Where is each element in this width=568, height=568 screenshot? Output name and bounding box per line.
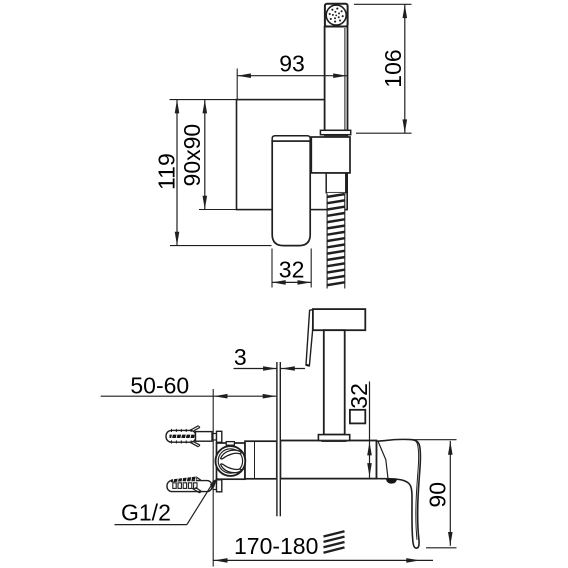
sprayer nozzle xyxy=(306,310,313,366)
dimension 32 extension lines xyxy=(271,249,273,288)
mounting screw head top xyxy=(213,434,217,441)
mixer body tube right xyxy=(280,441,376,479)
dimension 90x90 xyxy=(204,100,206,210)
svg-text:G1/2: G1/2 xyxy=(121,500,171,526)
svg-text:90: 90 xyxy=(425,482,451,508)
svg-text:93: 93 xyxy=(279,51,305,77)
svg-text:32: 32 xyxy=(279,257,305,283)
cartridge cap circle xyxy=(226,442,234,446)
holder flange ring xyxy=(320,130,350,134)
wall anchor bottom (dowel+screw) xyxy=(167,481,212,492)
dimension 93 extension line xyxy=(236,69,238,100)
hand shower handle shaft xyxy=(325,27,348,131)
mounting screw head bottom xyxy=(213,482,217,490)
dimension 90 extension lines xyxy=(411,439,457,441)
wall reference line xyxy=(212,389,214,567)
svg-text:106: 106 xyxy=(380,49,406,87)
hand shower head xyxy=(325,4,348,27)
wall plate side view (3mm) xyxy=(276,362,281,516)
hose connector nut xyxy=(326,173,346,193)
dimension 90 xyxy=(449,441,451,546)
svg-text:50-60: 50-60 xyxy=(130,373,189,399)
svg-text:170-180: 170-180 xyxy=(234,533,318,559)
mixer body housing xyxy=(217,443,246,479)
dimension 119 xyxy=(176,100,178,246)
mixer lever handle (front view) xyxy=(272,141,310,246)
dimension 32 (top) xyxy=(272,281,311,283)
shower hose (coil) xyxy=(327,193,345,290)
dimension 119 extension lines xyxy=(170,99,237,101)
mixer body tube left xyxy=(245,441,277,479)
dimension 90x90 extension line xyxy=(199,209,236,211)
sprayer shaft flange xyxy=(318,435,349,441)
svg-text:32: 32 xyxy=(346,383,372,409)
dimension 106 xyxy=(404,4,406,133)
wall plate 90x90 (top figure) xyxy=(237,100,348,210)
shower holder block xyxy=(311,137,350,173)
wall anchor top (dowel+screw) xyxy=(166,430,196,442)
mixer lever handle (side view) xyxy=(377,439,421,548)
dimension square-32 xyxy=(369,382,371,478)
dimension 106 extension lines xyxy=(354,3,412,5)
dimension 93 xyxy=(237,75,347,77)
sprayer head xyxy=(313,309,365,330)
svg-text:119: 119 xyxy=(153,153,179,190)
svg-text:90x90: 90x90 xyxy=(179,124,205,187)
svg-text:3: 3 xyxy=(234,344,247,370)
sprayer shaft xyxy=(324,330,345,434)
